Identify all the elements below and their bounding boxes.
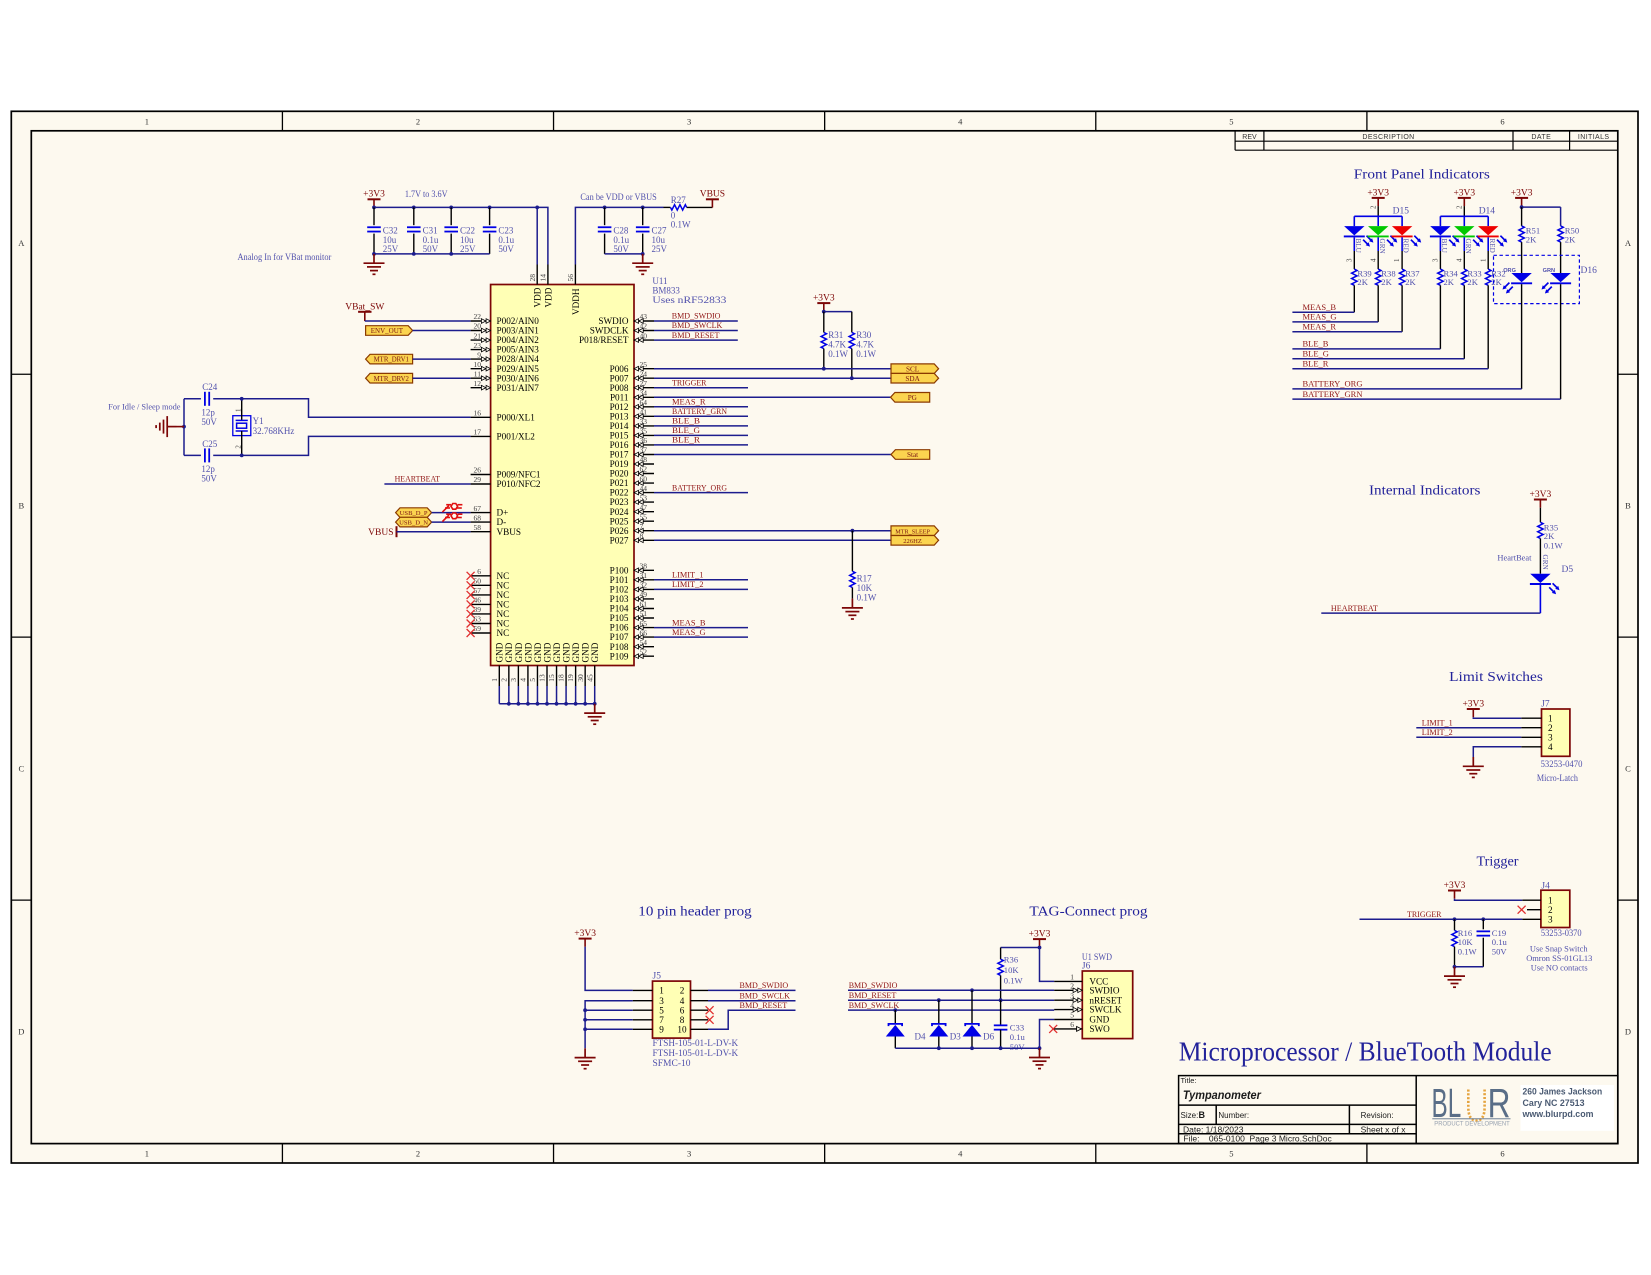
- svg-text:SWDIO: SWDIO: [1089, 985, 1119, 995]
- svg-text:54: 54: [640, 638, 648, 647]
- svg-text:40: 40: [640, 331, 648, 340]
- svg-text:SWDCLK: SWDCLK: [590, 326, 629, 336]
- differential pair directive D+: [442, 504, 462, 513]
- svg-text:1: 1: [145, 116, 149, 126]
- svg-text:+3V3: +3V3: [363, 190, 385, 200]
- svg-text:0.1u: 0.1u: [1010, 1032, 1026, 1042]
- svg-text:0.1W: 0.1W: [857, 592, 877, 602]
- svg-text:Tympanometer: Tympanometer: [1183, 1090, 1261, 1102]
- svg-text:C: C: [1625, 764, 1631, 774]
- svg-text:1: 1: [234, 408, 242, 412]
- svg-text:26: 26: [474, 466, 482, 475]
- svg-text:53253-0470: 53253-0470: [1541, 759, 1583, 769]
- ground: [364, 254, 385, 274]
- svg-text:62: 62: [640, 465, 648, 474]
- svg-text:3: 3: [687, 116, 691, 126]
- port SCL: [891, 364, 939, 374]
- power +3V3: [813, 294, 835, 312]
- svg-text:RED: RED: [1488, 239, 1496, 253]
- power +3V3: [1367, 188, 1389, 206]
- svg-text:GND: GND: [495, 642, 505, 662]
- svg-text:MTR_DRV2: MTR_DRV2: [374, 376, 410, 383]
- svg-text:2: 2: [680, 986, 685, 996]
- svg-text:NC: NC: [497, 590, 510, 600]
- svg-text:Stat: Stat: [907, 451, 918, 459]
- net LIMIT_2: [1416, 727, 1521, 737]
- svg-text:51: 51: [640, 609, 648, 618]
- net LIMIT_2: [654, 579, 748, 589]
- svg-text:BMD_SWCLK: BMD_SWCLK: [672, 320, 723, 330]
- svg-text:+3V3: +3V3: [1530, 490, 1552, 500]
- wire SCL: [654, 368, 891, 370]
- port MTR_DRV1: [366, 354, 413, 364]
- svg-text:P028/AIN4: P028/AIN4: [497, 354, 540, 364]
- BLUR logo: [1432, 1080, 1511, 1127]
- svg-text:7: 7: [640, 522, 644, 531]
- svg-text:25V: 25V: [652, 244, 668, 254]
- svg-text:BLE_G: BLE_G: [1303, 349, 1329, 359]
- port Stat: [891, 450, 930, 460]
- resistor R38: [1375, 269, 1395, 322]
- svg-text:GND: GND: [590, 642, 600, 662]
- revision table headers: [1242, 134, 1609, 141]
- svg-text:Can be VDD or VBUS: Can be VDD or VBUS: [580, 192, 656, 202]
- svg-text:REV: REV: [1242, 134, 1257, 141]
- svg-text:38: 38: [640, 562, 648, 571]
- svg-text:D5: D5: [1562, 565, 1574, 575]
- svg-text:DATE: DATE: [1531, 134, 1551, 141]
- svg-text:SCL: SCL: [906, 365, 919, 373]
- resistor R16: [1452, 919, 1478, 967]
- port ENV_OUT: [366, 326, 413, 336]
- capacitor C27: [636, 207, 668, 254]
- svg-text:BLE_B: BLE_B: [672, 416, 700, 426]
- svg-text:67: 67: [474, 504, 482, 513]
- net MEAS_G: [1292, 312, 1378, 322]
- svg-text:P017: P017: [610, 450, 629, 460]
- svg-text:0.1W: 0.1W: [1544, 541, 1564, 551]
- ground: [575, 1048, 596, 1068]
- power +3V3: [1530, 490, 1552, 508]
- title block texts: [1181, 1076, 1407, 1144]
- svg-text:0.1W: 0.1W: [856, 349, 876, 359]
- svg-text:P011: P011: [610, 392, 629, 402]
- port USB_D_N: [396, 517, 432, 527]
- svg-text:58: 58: [474, 523, 482, 532]
- svg-text:+3V3: +3V3: [574, 929, 596, 939]
- port USB_D_P: [396, 508, 432, 518]
- svg-text:1: 1: [659, 986, 664, 996]
- svg-text:4: 4: [1548, 742, 1553, 752]
- zone labels: [18, 116, 1632, 1158]
- svg-text:Microprocessor / BlueTooth Mod: Microprocessor / BlueTooth Module: [1179, 1037, 1552, 1067]
- svg-text:J5: J5: [653, 972, 662, 982]
- svg-text:HEARTBEAT: HEARTBEAT: [395, 474, 441, 484]
- diode D6: [963, 990, 995, 1048]
- svg-text:NC: NC: [497, 580, 510, 590]
- crystal Y1 32.768KHz: [233, 399, 295, 456]
- net MEAS_B: [1292, 302, 1354, 312]
- svg-text:NC: NC: [497, 609, 510, 619]
- svg-text:49: 49: [640, 590, 648, 599]
- svg-text:50V: 50V: [1492, 947, 1508, 957]
- svg-text:2K: 2K: [1405, 277, 1416, 287]
- svg-text:FTSH-105-01-L-DV-K: FTSH-105-01-L-DV-K: [653, 1038, 739, 1048]
- svg-text:25: 25: [640, 360, 648, 369]
- svg-text:6: 6: [680, 1005, 685, 1015]
- net MEAS_G: [654, 627, 748, 637]
- LED D16 ORG element: [1503, 273, 1533, 389]
- svg-text:2: 2: [416, 116, 420, 126]
- svg-text:50V: 50V: [498, 244, 514, 254]
- logo background: [1521, 1085, 1615, 1131]
- svg-text:PRODUCT DEVELOPMENT: PRODUCT DEVELOPMENT: [1434, 1120, 1510, 1127]
- svg-text:2K: 2K: [1357, 277, 1368, 287]
- svg-text:GRN: GRN: [1378, 239, 1386, 255]
- svg-text:GND: GND: [533, 642, 543, 662]
- svg-text:P109: P109: [610, 651, 629, 661]
- svg-text:C: C: [18, 764, 24, 774]
- svg-text:43: 43: [640, 312, 648, 321]
- ground: [156, 416, 176, 437]
- svg-text:SWCLK: SWCLK: [1089, 1005, 1122, 1015]
- svg-text:56: 56: [566, 274, 575, 282]
- wire MTR_DRV1 to P028: [413, 358, 471, 360]
- wire Stat: [654, 454, 891, 456]
- svg-text:P008: P008: [610, 383, 629, 393]
- svg-text:P005/AIN3: P005/AIN3: [497, 345, 540, 355]
- svg-text:P007: P007: [610, 373, 629, 383]
- svg-text:17: 17: [474, 428, 482, 437]
- svg-text:R27: R27: [671, 195, 687, 205]
- net BLE_B: [654, 416, 748, 426]
- svg-text:P029/AIN5: P029/AIN5: [497, 364, 540, 374]
- svg-text:10 pin header prog: 10 pin header prog: [638, 904, 752, 919]
- svg-text:23: 23: [474, 341, 482, 350]
- svg-text:32.768KHz: 32.768KHz: [253, 426, 295, 436]
- svg-text:GND: GND: [561, 642, 571, 662]
- svg-text:FTSH-105-01-L-DV-K: FTSH-105-01-L-DV-K: [653, 1048, 739, 1058]
- svg-text:P107: P107: [610, 632, 629, 642]
- svg-text:6: 6: [1500, 1149, 1504, 1159]
- svg-text:P100: P100: [610, 565, 629, 575]
- svg-text:1: 1: [1393, 258, 1401, 262]
- svg-text:BMD_RESET: BMD_RESET: [740, 1000, 788, 1010]
- svg-text:2: 2: [416, 1149, 420, 1159]
- svg-text:27: 27: [640, 379, 648, 388]
- capacitor C32: [367, 207, 399, 254]
- power +3V3: [1511, 188, 1533, 206]
- port SDA: [891, 373, 939, 383]
- svg-text:8: 8: [680, 1015, 685, 1025]
- port PG: [891, 393, 930, 403]
- svg-text:24: 24: [640, 369, 648, 378]
- port MTR_DRV2: [366, 373, 413, 383]
- LED D16 (ORG GRN battery indicators): [1494, 255, 1598, 303]
- svg-text:2K: 2K: [1444, 277, 1455, 287]
- net TRIGGER: [1360, 909, 1523, 921]
- svg-text:53253-0370: 53253-0370: [1541, 928, 1582, 938]
- resistor R31: [821, 312, 848, 369]
- capacitor C23: [483, 207, 515, 254]
- svg-text:0.1W: 0.1W: [1458, 947, 1478, 957]
- power +3V3: [1462, 699, 1484, 717]
- svg-text:BMD_SWDIO: BMD_SWDIO: [849, 980, 898, 990]
- power VBUS (left): [368, 526, 396, 538]
- svg-text:55: 55: [640, 512, 648, 521]
- wire VBUS to pin 58: [397, 531, 471, 533]
- svg-text:66: 66: [640, 628, 648, 637]
- resistor R51: [1519, 207, 1540, 273]
- svg-text:VBUS: VBUS: [368, 528, 393, 538]
- wire +3V3 to J7 pin 1: [1473, 717, 1521, 718]
- svg-text:61: 61: [640, 600, 648, 609]
- svg-text:HEARTBEAT: HEARTBEAT: [1331, 603, 1379, 613]
- wire +3V3 to J4 pin 1: [1455, 899, 1523, 901]
- svg-text:VDDH: VDDH: [571, 288, 581, 315]
- svg-text:13: 13: [538, 674, 547, 682]
- svg-text:Use NO contacts: Use NO contacts: [1531, 962, 1588, 972]
- capacitor C28: [598, 207, 630, 254]
- wire RC bottom: [1455, 966, 1484, 968]
- net BMD_SWCLK: [654, 320, 738, 330]
- svg-text:4: 4: [680, 996, 685, 1006]
- svg-text:P025: P025: [610, 516, 629, 526]
- svg-text:J7: J7: [1541, 700, 1550, 710]
- svg-text:MTR_DRV1: MTR_DRV1: [374, 357, 409, 364]
- svg-text:2: 2: [499, 678, 508, 682]
- svg-text:NC: NC: [497, 571, 510, 581]
- svg-text:www.blurpd.com: www.blurpd.com: [1521, 1109, 1593, 1119]
- resistor R36: [998, 948, 1024, 1001]
- ground: [842, 599, 863, 619]
- svg-text:TRIGGER: TRIGGER: [672, 377, 707, 387]
- wire crystal left rail: [183, 399, 185, 456]
- svg-text:Limit Switches: Limit Switches: [1449, 669, 1543, 684]
- svg-text:VDD: VDD: [533, 287, 543, 307]
- wire VDDH bus: [575, 207, 663, 264]
- svg-text:TRIGGER: TRIGGER: [1407, 909, 1442, 919]
- svg-text:36: 36: [640, 436, 648, 445]
- svg-text:1: 1: [1548, 713, 1553, 723]
- svg-text:68: 68: [474, 513, 482, 522]
- resistor R37: [1399, 269, 1420, 332]
- svg-text:GND: GND: [552, 642, 562, 662]
- svg-text:57: 57: [474, 586, 482, 595]
- svg-text:SDA: SDA: [905, 375, 920, 383]
- svg-text:B: B: [1199, 1110, 1206, 1120]
- svg-text:4: 4: [519, 678, 528, 682]
- ground: [1029, 1048, 1050, 1068]
- LED D14: [1430, 205, 1507, 269]
- no connect J5 pin 8: [706, 1016, 714, 1024]
- crystal pin numbers: [234, 408, 242, 449]
- capacitor C19: [1477, 919, 1508, 967]
- svg-text:Micro-Latch: Micro-Latch: [1537, 773, 1578, 783]
- svg-text:25V: 25V: [383, 244, 399, 254]
- connector J5 header: [633, 972, 708, 1038]
- power VBat_SW: [345, 302, 384, 321]
- svg-text:MEAS_B: MEAS_B: [672, 617, 706, 627]
- svg-text:P016: P016: [610, 440, 629, 450]
- svg-text:NC: NC: [497, 628, 510, 638]
- wire J7 pin 4 to ground: [1473, 747, 1521, 757]
- svg-text:MEAS_G: MEAS_G: [1303, 312, 1337, 322]
- resistor R32: [1485, 269, 1505, 369]
- wire ENV_OUT to P003: [413, 330, 471, 332]
- svg-text:D+: D+: [497, 508, 509, 518]
- svg-text:+3V3: +3V3: [813, 294, 835, 304]
- LED D5: [1530, 555, 1573, 614]
- svg-text:LIMIT_1: LIMIT_1: [1422, 717, 1453, 727]
- svg-text:B: B: [18, 501, 24, 511]
- svg-text:D15: D15: [1393, 207, 1410, 217]
- svg-text:50V: 50V: [201, 474, 217, 484]
- svg-text:P018/RESET: P018/RESET: [579, 335, 629, 345]
- svg-text:SWO: SWO: [1089, 1024, 1110, 1034]
- svg-text:P012: P012: [610, 402, 629, 412]
- net BLE_R: [654, 435, 748, 445]
- svg-text:6: 6: [1500, 116, 1504, 126]
- net LIMIT_1: [654, 570, 748, 580]
- svg-text:VBUS: VBUS: [497, 527, 522, 537]
- svg-text:20: 20: [474, 322, 482, 331]
- svg-text:5: 5: [1070, 1011, 1074, 1020]
- svg-text:10K: 10K: [1004, 965, 1020, 975]
- resistor R17: [850, 531, 877, 603]
- svg-text:P003/AIN1: P003/AIN1: [497, 326, 540, 336]
- svg-text:ORG: ORG: [1503, 268, 1516, 274]
- svg-text:60: 60: [640, 474, 648, 483]
- svg-text:P009/NFC1: P009/NFC1: [497, 470, 541, 480]
- svg-text:D: D: [1625, 1027, 1631, 1037]
- svg-text:NC: NC: [497, 619, 510, 629]
- svg-text:65: 65: [640, 619, 648, 628]
- svg-text:44: 44: [640, 484, 648, 493]
- svg-text:DESCRIPTION: DESCRIPTION: [1362, 134, 1414, 141]
- svg-text:45: 45: [585, 674, 594, 682]
- svg-text:2: 2: [234, 445, 242, 449]
- svg-text:P001/XL2: P001/XL2: [497, 432, 536, 442]
- svg-text:D14: D14: [1479, 207, 1496, 217]
- net TRIGGER (from P008): [654, 377, 748, 387]
- svg-text:GRN: GRN: [1543, 268, 1555, 274]
- net BMD_SWDIO (J5): [708, 980, 796, 990]
- svg-text:MEAS_R: MEAS_R: [1303, 322, 1337, 332]
- svg-text:16: 16: [474, 409, 482, 418]
- capacitor C31: [407, 207, 439, 254]
- net BMD_SWCLK (J5): [708, 990, 796, 1000]
- svg-text:BMD_SWCLK: BMD_SWCLK: [740, 990, 791, 1000]
- net BATTERY_ORG (from P022): [654, 482, 748, 492]
- svg-text:0.1W: 0.1W: [828, 349, 848, 359]
- svg-text:4: 4: [1455, 258, 1463, 262]
- capacitor C25: [184, 439, 242, 484]
- IC U11 left pins: [471, 312, 541, 537]
- svg-text:3: 3: [1548, 732, 1553, 742]
- svg-text:15: 15: [547, 674, 556, 682]
- power +3V3: [363, 190, 385, 208]
- LED D15: [1344, 205, 1421, 269]
- svg-text:+3V3: +3V3: [1444, 881, 1466, 891]
- power +3V3: [1453, 188, 1475, 206]
- svg-text:MEAS_G: MEAS_G: [672, 627, 706, 637]
- svg-text:P031/AIN7: P031/AIN7: [497, 383, 540, 393]
- wire USB_D_N to D-: [432, 521, 471, 523]
- svg-text:2: 2: [1548, 905, 1553, 915]
- svg-text:+3V3: +3V3: [1462, 699, 1484, 709]
- svg-text:11: 11: [474, 369, 481, 378]
- svg-text:+3V3: +3V3: [1511, 188, 1533, 198]
- IC U11 designator U11 BM833 Uses nRF52833: [652, 276, 727, 305]
- no connect J4 pin 2: [1518, 906, 1526, 914]
- svg-text:BMD_SWCLK: BMD_SWCLK: [849, 1000, 900, 1010]
- svg-text:HeartBeat: HeartBeat: [1497, 552, 1532, 562]
- svg-text:GND: GND: [514, 642, 524, 662]
- svg-text:MEAS_B: MEAS_B: [1303, 302, 1337, 312]
- svg-text:59: 59: [474, 624, 482, 633]
- net BMD_SWCLK (TAG): [848, 1000, 1054, 1012]
- net BLE_G: [1292, 349, 1464, 359]
- svg-text:Analog In for VBat monitor: Analog In for VBat monitor: [238, 252, 332, 262]
- svg-text:31: 31: [640, 571, 648, 580]
- svg-text:4: 4: [958, 116, 963, 126]
- svg-text:50V: 50V: [1010, 1042, 1026, 1052]
- svg-text:BATTERY_GRN: BATTERY_GRN: [1303, 389, 1363, 399]
- wire ground tap: [177, 426, 185, 428]
- IC U11 NC pins: [467, 567, 510, 638]
- svg-text:P022: P022: [610, 488, 629, 498]
- svg-text:35: 35: [640, 427, 648, 436]
- svg-text:30: 30: [576, 674, 585, 682]
- svg-text:P102: P102: [610, 585, 629, 595]
- connector J4 53253-0370: [1522, 882, 1570, 928]
- svg-text:Uses nRF52833: Uses nRF52833: [652, 295, 727, 305]
- wire pullup top: [824, 311, 852, 313]
- svg-text:P019: P019: [610, 459, 629, 469]
- svg-text:2K: 2K: [1526, 234, 1537, 244]
- power VBUS: [700, 190, 725, 208]
- power +3V3: [1029, 930, 1051, 948]
- svg-text:4: 4: [1369, 258, 1377, 262]
- svg-text:SWDIO: SWDIO: [598, 316, 628, 326]
- svg-text:GND: GND: [571, 642, 581, 662]
- wire MTR_SLEEP: [654, 530, 891, 532]
- no connect J5 pin 6: [706, 1006, 714, 1014]
- net BMD_SWDIO: [654, 311, 738, 321]
- svg-text:10: 10: [474, 360, 482, 369]
- wire GND bus under U11: [499, 686, 596, 706]
- svg-text:P013: P013: [610, 411, 629, 421]
- wire SDA: [654, 377, 891, 379]
- svg-text:9: 9: [477, 350, 481, 359]
- svg-text:Size:: Size:: [1181, 1111, 1199, 1120]
- svg-text:D-: D-: [497, 517, 507, 527]
- svg-text:41: 41: [640, 408, 648, 417]
- IC U11 top power pins VDD VDD VDDH: [528, 265, 581, 316]
- svg-text:9: 9: [659, 1024, 664, 1034]
- svg-text:+3V3: +3V3: [1453, 188, 1475, 198]
- wire J6 GND pin to bus: [1040, 1020, 1055, 1049]
- ground: [584, 704, 605, 724]
- svg-text:Front Panel Indicators: Front Panel Indicators: [1354, 166, 1490, 181]
- svg-text:VBUS: VBUS: [700, 190, 725, 200]
- net BATTERY_ORG: [1292, 379, 1521, 389]
- net MEAS_B: [654, 617, 748, 627]
- resistor R33: [1462, 269, 1482, 359]
- svg-text:P105: P105: [610, 613, 629, 623]
- svg-text:P004/AIN2: P004/AIN2: [497, 335, 540, 345]
